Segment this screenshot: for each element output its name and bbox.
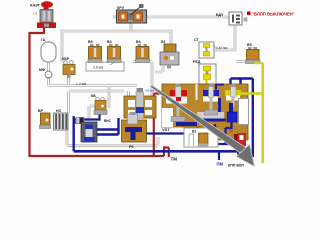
valve Rb: [122, 112, 147, 149]
svg-text:КБ: КБ: [91, 94, 96, 98]
svg-text:СТ: СТ: [194, 38, 200, 42]
solenoid B5: [88, 40, 102, 63]
big cursor arrow: [150, 85, 254, 166]
navy KB drain: [74, 115, 100, 120]
yellow branch into block: [242, 92, 263, 95]
navy PM stub: [218, 151, 220, 160]
navy bottom run: [74, 151, 253, 157]
navy GT to Rb double: [97, 118, 119, 135]
wire KB base channel: [89, 106, 95, 121]
valve VDU + note: [216, 12, 295, 26]
wire VDU down to ST: [214, 26, 235, 50]
valve NC: [54, 109, 69, 130]
wire solenoid row base: [133, 62, 163, 97]
svg-text:Е4: Е4: [161, 40, 165, 44]
orifice box 0,8 mm: [86, 62, 124, 71]
svg-text:КАЗГ: КАЗГ: [30, 3, 41, 8]
svg-text:КРV: КРV: [117, 6, 125, 10]
svg-text:1,2 мм: 1,2 мм: [76, 82, 87, 86]
navy left vertical: [72, 116, 74, 151]
svg-text:В9: В9: [247, 43, 252, 47]
svg-text:В6: В6: [136, 40, 141, 44]
wire accumulator down + MF + bottom manifold: [49, 62, 138, 108]
svg-text:РЕД: РЕД: [193, 60, 201, 64]
yellow line from B9 down: [254, 63, 263, 163]
svg-text:0,45 мм: 0,45 мм: [216, 46, 227, 50]
wire manifold 2: [69, 78, 125, 113]
main valve body block: [162, 84, 249, 140]
svg-text:ВР: ВР: [38, 109, 44, 113]
svg-text:VST: VST: [162, 127, 170, 132]
wire NC drain long bottom channel: [67, 130, 158, 146]
svg-text:Рб: Рб: [129, 145, 134, 149]
svg-text:ВНС: ВНС: [104, 119, 112, 123]
svg-text:КБР: КБР: [62, 57, 70, 61]
solenoid B6: [136, 40, 150, 63]
svg-text:"БЛПП ВЫКЛЮЧЕН": "БЛПП ВЫКЛЮЧЕН": [252, 12, 295, 17]
yellow branch over block: [241, 92, 263, 95]
valve GT: [81, 122, 97, 142]
solenoid B9: [246, 43, 261, 64]
navy block horizontal: [197, 119, 226, 122]
navy right box: [231, 79, 253, 158]
red line main network: [30, 27, 171, 157]
wire KPV down: [130, 23, 133, 32]
wire RC top: [127, 91, 130, 98]
valve E4: [160, 40, 179, 69]
svg-text:0,8 мм: 0,8 мм: [93, 66, 104, 70]
spool S3 yellow: [225, 84, 241, 107]
svg-text:МФ: МФ: [39, 68, 45, 72]
valve VR: [38, 109, 51, 129]
wire KPV left stub: [113, 16, 117, 19]
valve RED: [193, 60, 216, 84]
accumulator GA: [41, 38, 56, 62]
spool S2 blue: [203, 84, 219, 115]
valve KBR: [62, 57, 87, 86]
navy GT stub: [74, 121, 81, 123]
bottom white box with B1: [184, 128, 218, 147]
svg-text:1,5: 1,5: [33, 12, 38, 16]
svg-text:В0: В0: [107, 40, 112, 44]
svg-text:КПП ВКЛ: КПП ВКЛ: [228, 164, 244, 168]
spool S1 red: [170, 84, 187, 122]
svg-text:В1: В1: [192, 130, 196, 134]
solenoid B0: [107, 40, 121, 63]
svg-text:ГА: ГА: [41, 38, 46, 42]
svg-text:В5: В5: [88, 40, 93, 44]
valve B2 red right: [230, 129, 246, 146]
valve KAZG: [30, 1, 56, 28]
svg-text:ВДУ: ВДУ: [216, 13, 224, 17]
valve ST: [194, 38, 227, 58]
valve RC lockup: [124, 88, 156, 118]
gray channel: big loop top: [62, 31, 171, 62]
navy right steps + blue square: [227, 112, 237, 122]
wire Rb to B1 navy: [147, 132, 185, 134]
wire KPV to VDU: [146, 16, 229, 19]
wire B9 base stub: [236, 60, 246, 63]
valve KPV: [117, 4, 147, 23]
svg-text:НС: НС: [56, 109, 62, 113]
small valve VU: [76, 118, 84, 124]
navy below block: [198, 127, 218, 142]
navy details in block: [216, 85, 224, 90]
svg-text:кл: кл: [230, 129, 233, 133]
filter MF: [39, 68, 52, 79]
svg-text:ПМ: ПМ: [217, 162, 224, 167]
svg-text:ТМ: ТМ: [171, 157, 178, 162]
valve KB: [91, 94, 107, 115]
yellow RED drain: [206, 80, 208, 88]
